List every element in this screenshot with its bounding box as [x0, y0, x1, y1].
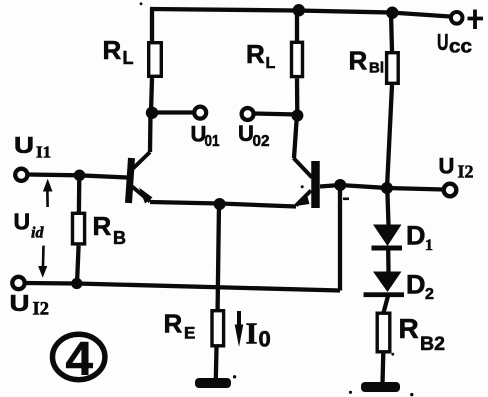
terminal UI1: [15, 169, 27, 181]
node collector2 tap: [291, 110, 303, 122]
node RB bottom: [71, 278, 82, 289]
figure number 4: [52, 334, 104, 379]
svg-text:I2: I2: [458, 162, 474, 182]
svg-text:R: R: [103, 35, 122, 65]
arrow Uid up: [46, 186, 49, 207]
resistor RL2: [292, 42, 303, 76]
wire RE to ground: [214, 348, 219, 381]
speck top-left of rail: [140, 2, 143, 5]
arrow Uid down: [42, 246, 45, 266]
svg-text:cc: cc: [449, 37, 472, 58]
svg-text:L: L: [123, 48, 134, 68]
node base2: [334, 179, 346, 191]
wire bottom from UI2: [25, 283, 340, 291]
svg-text:U: U: [10, 290, 30, 316]
transistor Q2 emitter arrow: [294, 193, 310, 206]
svg-text:2: 2: [425, 286, 434, 303]
speck bottom-right of ground 2: [410, 393, 413, 396]
svg-text:B2: B2: [420, 333, 445, 355]
resistor RL1: [149, 43, 162, 77]
speck left of ground 2: [349, 391, 352, 394]
wire RB top: [77, 175, 82, 212]
wire top rail: [150, 9, 450, 17]
wire emitter2 horizontal: [220, 204, 296, 207]
svg-text:01: 01: [205, 133, 220, 150]
plus sign: [468, 10, 484, 30]
transistor Q2 bar: [311, 161, 320, 208]
svg-text:B: B: [113, 228, 126, 248]
svg-text:0: 0: [259, 327, 271, 352]
node top rail right: [386, 7, 398, 19]
svg-text:I: I: [246, 316, 258, 351]
svg-text:1: 1: [425, 237, 433, 254]
node common emitter: [214, 198, 226, 210]
svg-text:R: R: [164, 309, 183, 339]
transistor Q1 bar: [129, 158, 132, 203]
wire RB2 to ground: [380, 353, 385, 385]
wire to U01 terminal: [151, 110, 194, 114]
node collector1 tap: [146, 107, 158, 119]
resistor RB1: [387, 53, 399, 84]
svg-text:4: 4: [66, 332, 94, 385]
terminal UI2 right: [444, 184, 457, 197]
svg-text:U: U: [14, 132, 34, 158]
svg-text:E: E: [184, 324, 195, 343]
svg-text:D: D: [406, 221, 426, 251]
svg-text:R: R: [93, 211, 112, 241]
node RB top: [74, 170, 86, 182]
wire emitter node down: [218, 204, 219, 310]
terminal Ucc plus: [451, 12, 463, 24]
wire emitter1 to node: [150, 202, 220, 204]
terminal U02: [242, 108, 254, 120]
ground 2: [361, 382, 400, 392]
svg-text:U: U: [437, 29, 449, 55]
transistor Q2 emitter: [296, 191, 311, 206]
diode D1: [373, 225, 402, 247]
speck below RB2: [391, 353, 394, 356]
node top rail left: [293, 4, 305, 16]
wire collector2 slant: [294, 158, 313, 178]
svg-text:id: id: [31, 225, 44, 242]
resistor RE: [212, 311, 224, 346]
svg-text:Bl: Bl: [369, 60, 384, 77]
svg-text:I2: I2: [33, 300, 49, 320]
wire collector2 vertical: [294, 115, 297, 159]
wire left RL branch bottom: [151, 78, 152, 112]
resistor RB2: [377, 313, 390, 352]
terminal UI2 bottom-left: [12, 277, 24, 289]
wire base2: [320, 185, 444, 190]
speck right of ground 1: [233, 375, 236, 378]
svg-text:L: L: [266, 55, 276, 72]
wire RB1 bottom: [387, 85, 392, 188]
wire U02 to node: [253, 114, 298, 115]
speck between base2 dots: [343, 198, 349, 201]
ground 1: [195, 378, 231, 388]
svg-text:R: R: [349, 46, 368, 76]
terminal U01: [194, 107, 206, 119]
svg-text:U: U: [439, 154, 455, 179]
diode D2: [373, 272, 402, 293]
svg-text:U: U: [14, 209, 31, 235]
wire diode string top: [387, 188, 388, 225]
wire right RL top: [295, 11, 299, 42]
arrow I0: [237, 311, 241, 327]
wire RB bottom: [77, 246, 79, 284]
wire RB1 top: [391, 13, 392, 52]
wire collector1 vertical: [148, 113, 153, 153]
svg-text:D: D: [406, 270, 426, 300]
wire D1 to D2: [386, 250, 391, 272]
wire right feedback vertical: [338, 185, 342, 291]
svg-text:R: R: [399, 313, 419, 344]
transistor Q1 emitter: [132, 186, 151, 202]
svg-text:R: R: [246, 39, 265, 69]
svg-text:U: U: [238, 121, 254, 146]
node diode top: [381, 182, 393, 194]
wire base1: [27, 175, 127, 178]
wire collector1 slant: [133, 152, 151, 169]
wire left RL branch top: [150, 9, 154, 42]
svg-text:I1: I1: [36, 143, 51, 162]
wire D2 to RB2: [384, 296, 388, 312]
svg-text:02: 02: [253, 133, 270, 150]
resistor RB: [73, 213, 85, 244]
speck near Q2 emitter: [301, 185, 304, 188]
wire right RL bottom: [295, 78, 300, 114]
transistor Q1 emitter arrow: [139, 188, 153, 204]
